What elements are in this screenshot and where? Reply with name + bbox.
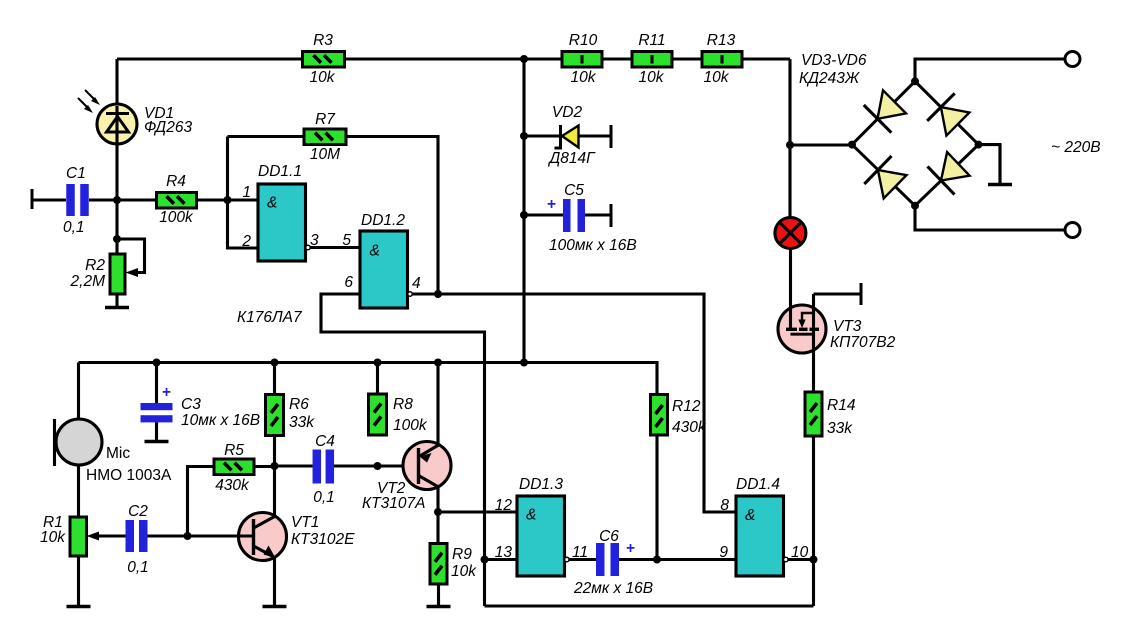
wire: VT2 emitter up to rail bbox=[436, 363, 439, 446]
wire: R12 down to C6/pin9 net bbox=[655, 435, 658, 560]
pin 10 output bubble bbox=[784, 557, 789, 562]
transistor VT2 (PNP) bbox=[403, 442, 451, 490]
svg-text:R14: R14 bbox=[827, 397, 856, 414]
svg-text:DD1.1: DD1.1 bbox=[258, 163, 302, 180]
svg-text:+: + bbox=[547, 196, 556, 213]
svg-text:22мк x 16В: 22мк x 16В bbox=[573, 580, 653, 597]
zener diode VD2 bbox=[524, 134, 560, 137]
svg-text:10k: 10k bbox=[704, 69, 730, 86]
svg-text:0,1: 0,1 bbox=[127, 559, 149, 576]
svg-text:C5: C5 bbox=[564, 182, 584, 199]
resistor R14 bbox=[805, 392, 822, 436]
svg-text:Mic: Mic bbox=[106, 445, 130, 462]
node: middle bus tap bbox=[520, 359, 528, 367]
wire: VT1 collector up bbox=[273, 466, 276, 517]
lamp HL (red) bbox=[775, 218, 806, 249]
node: R8 tap bbox=[374, 359, 382, 367]
wire: bridge right to ground bbox=[979, 145, 1001, 183]
svg-text:430k: 430k bbox=[215, 477, 250, 494]
wire: R14 down to pin10 node bbox=[812, 436, 815, 606]
svg-text:0,1: 0,1 bbox=[313, 489, 335, 506]
op-amp gate DD1.1 bbox=[258, 184, 306, 261]
svg-text:DD1.2: DD1.2 bbox=[361, 212, 405, 229]
svg-text:0,1: 0,1 bbox=[63, 219, 85, 236]
ground under R2 bbox=[115, 294, 118, 308]
resistor R6 bbox=[273, 363, 276, 395]
diode VD6 (bottom-right arm) bbox=[928, 152, 970, 195]
node: bridge-left/lamp junction bbox=[786, 141, 794, 149]
svg-text:10k: 10k bbox=[571, 69, 597, 86]
node: C1/R4/VD1/R2 junction bbox=[113, 196, 121, 204]
node: R6/R5/C4/VT1 bbox=[271, 462, 279, 470]
node: VT2 emitter tap bbox=[434, 359, 442, 367]
wire: mic-amp supply rail bbox=[79, 363, 658, 395]
svg-text:430k: 430k bbox=[672, 419, 707, 436]
diode bridge arms bbox=[852, 81, 979, 205]
wire: VT1 base bbox=[188, 534, 254, 537]
transistor VT1 (NPN) bbox=[239, 513, 287, 561]
svg-text:КД243Ж: КД243Ж bbox=[799, 70, 860, 87]
resistor R7 bbox=[304, 129, 346, 145]
wire: R7 right to output-4 node bbox=[346, 137, 438, 295]
svg-text:10k: 10k bbox=[451, 563, 477, 580]
potentiometer R2 with wiper loop bbox=[110, 254, 125, 294]
svg-text:R8: R8 bbox=[393, 396, 413, 413]
svg-text:КП707В2: КП707В2 bbox=[830, 334, 896, 351]
wire: bridge top to AC terminal bbox=[915, 59, 1065, 81]
wire: top supply rail bbox=[117, 57, 790, 60]
svg-text:VT1: VT1 bbox=[291, 514, 319, 531]
svg-text:R6: R6 bbox=[289, 396, 309, 413]
node: C2/R5/base bbox=[184, 532, 192, 540]
capacitor C6 bbox=[569, 558, 596, 561]
wire: VT3 source to R14 bbox=[812, 353, 815, 392]
capacitor C4 bbox=[275, 464, 313, 467]
svg-text:C1: C1 bbox=[66, 165, 86, 182]
svg-text:10k: 10k bbox=[310, 69, 336, 86]
svg-text:C3: C3 bbox=[181, 396, 201, 413]
gate DD1.2 bbox=[360, 231, 408, 308]
node: pin12 tap bbox=[434, 508, 442, 516]
resistor R4 bbox=[117, 198, 157, 201]
svg-text:R4: R4 bbox=[166, 173, 186, 190]
microphone Mic bbox=[77, 363, 80, 420]
resistor R3 bbox=[303, 52, 345, 68]
wire: VD1 anode lead up bbox=[115, 59, 118, 106]
wire: rail down to bridge level bbox=[788, 59, 791, 218]
node: C5 junction bbox=[520, 211, 528, 219]
svg-text:1: 1 bbox=[242, 184, 251, 201]
svg-text:2: 2 bbox=[241, 233, 251, 250]
resistor R10 bbox=[562, 52, 602, 68]
svg-text:4: 4 bbox=[412, 275, 421, 292]
svg-text:10мк x 16В: 10мк x 16В bbox=[181, 412, 260, 429]
wire: bottom feedback rail bbox=[485, 604, 814, 607]
wire: pin 13 bbox=[485, 558, 518, 561]
svg-text:10M: 10M bbox=[310, 146, 340, 163]
light arrows into VD1 bbox=[78, 90, 100, 113]
capacitor C1 bbox=[31, 189, 34, 209]
resistor R13 bbox=[702, 52, 742, 68]
svg-text:12: 12 bbox=[495, 497, 513, 514]
svg-text:R10: R10 bbox=[569, 32, 598, 49]
svg-text:DD1.4: DD1.4 bbox=[736, 476, 780, 493]
wire: junction down to pin 2 bbox=[228, 200, 259, 248]
resistor R9 bbox=[430, 544, 447, 585]
svg-text:R5: R5 bbox=[224, 442, 244, 459]
diode VD4 (top-right arm) bbox=[927, 93, 969, 135]
svg-text:R13: R13 bbox=[707, 32, 736, 49]
svg-text:HMO 1003A: HMO 1003A bbox=[86, 467, 172, 484]
svg-text:C2: C2 bbox=[128, 503, 148, 520]
svg-text:5: 5 bbox=[342, 232, 351, 249]
wire: pin4 to DD1.4 pin8 bbox=[412, 294, 736, 512]
capacitor C2 bbox=[148, 534, 188, 537]
svg-text:DD1.3: DD1.3 bbox=[519, 476, 563, 493]
wire: middle vertical bus bbox=[522, 59, 525, 363]
wire: node to R2 tap node bbox=[115, 200, 118, 254]
node: R4/R7/pin1/pin2 junction bbox=[224, 196, 232, 204]
ground (R1) bbox=[77, 600, 80, 607]
svg-text:ФД263: ФД263 bbox=[144, 119, 192, 136]
svg-text:VD3-VD6: VD3-VD6 bbox=[801, 52, 867, 69]
svg-text:R9: R9 bbox=[452, 546, 472, 563]
svg-text:33k: 33k bbox=[827, 420, 853, 437]
svg-text:8: 8 bbox=[720, 497, 729, 514]
svg-text:C6: C6 bbox=[599, 528, 619, 545]
svg-text:VT3: VT3 bbox=[833, 318, 862, 335]
wire: VT1 emitter to ground bbox=[273, 557, 276, 605]
ground (R9) bbox=[437, 600, 440, 607]
svg-text:&: & bbox=[267, 195, 277, 212]
node: rail/R10 junction bbox=[520, 55, 528, 63]
wire: VT2 collector down bbox=[436, 487, 439, 544]
svg-text:10k: 10k bbox=[40, 529, 66, 546]
wire: junction up to R7 left bbox=[226, 137, 229, 201]
svg-text:9: 9 bbox=[719, 544, 728, 561]
resistor R12 bbox=[651, 395, 668, 436]
svg-text:VD2: VD2 bbox=[552, 104, 583, 121]
svg-text:Д814Г: Д814Г bbox=[547, 150, 596, 167]
svg-text:C4: C4 bbox=[315, 433, 335, 450]
wire: R6 to VT1 collector node bbox=[273, 436, 276, 467]
node: pin13/feedback bbox=[481, 556, 489, 564]
ground (VT1) bbox=[273, 600, 276, 607]
resistor R11 bbox=[632, 52, 672, 68]
wire: to VT2 base bbox=[378, 464, 419, 467]
wire: pin3 to pin5 bbox=[310, 246, 360, 249]
svg-text:&: & bbox=[370, 243, 380, 260]
svg-text:R11: R11 bbox=[638, 32, 665, 49]
pin 11 output bubble bbox=[565, 557, 570, 562]
svg-text:10k: 10k bbox=[639, 69, 665, 86]
node: pin10/R14/feedback bbox=[810, 556, 818, 564]
resistor R8 bbox=[376, 363, 379, 395]
svg-text:+: + bbox=[626, 540, 635, 557]
svg-text:R7: R7 bbox=[315, 111, 336, 128]
svg-text:100k: 100k bbox=[159, 209, 194, 226]
AC terminal (top) bbox=[1065, 52, 1080, 67]
svg-text:R2: R2 bbox=[85, 257, 105, 274]
svg-text:К176ЛА7: К176ЛА7 bbox=[237, 309, 303, 326]
node: VD2 junction bbox=[520, 132, 528, 140]
capacitor C5 bbox=[524, 213, 563, 216]
svg-text:100k: 100k bbox=[393, 417, 428, 434]
AC terminal (bottom) bbox=[1065, 223, 1080, 238]
svg-text:+: + bbox=[162, 384, 171, 401]
pin 4 output bubble bbox=[408, 292, 413, 297]
node: pin4/R7 junction bbox=[434, 290, 442, 298]
wire: R9 to ground bbox=[437, 584, 440, 605]
svg-text:2,2M: 2,2M bbox=[70, 273, 106, 290]
svg-text:&: & bbox=[526, 507, 536, 524]
svg-text:33k: 33k bbox=[289, 414, 315, 431]
potentiometer R1 bbox=[70, 517, 87, 556]
node: R8/C4/VT2-base bbox=[374, 462, 382, 470]
svg-text:&: & bbox=[745, 507, 755, 524]
diode VD5 (bottom-left arm) bbox=[864, 156, 906, 198]
pin 3 output bubble bbox=[306, 245, 311, 250]
node: C3 tap bbox=[153, 359, 161, 367]
svg-text:R12: R12 bbox=[672, 398, 701, 415]
svg-text:~ 220В: ~ 220В bbox=[1051, 139, 1101, 156]
wire: bridge bottom to AC terminal bbox=[915, 206, 1065, 230]
MOSFET VT3 bbox=[778, 294, 826, 353]
node: R12/C6/pin9 bbox=[653, 556, 661, 564]
wire: VD1 cathode down to node bbox=[115, 144, 118, 200]
wire: mic to R1 bbox=[77, 465, 80, 517]
wire: pin 6 feedback down bbox=[321, 294, 485, 606]
wire: lamp to VT3 drain bbox=[789, 249, 792, 311]
svg-text:6: 6 bbox=[344, 274, 353, 291]
svg-text:100мк x 16В: 100мк x 16В bbox=[549, 237, 637, 254]
wire: pin 12 bbox=[438, 510, 517, 513]
svg-text:КТ3102Е: КТ3102Е bbox=[291, 531, 355, 548]
bridge nodes bbox=[848, 141, 856, 149]
wire: R1 to ground bbox=[77, 556, 80, 605]
diode VD3 (top-left arm) bbox=[864, 90, 906, 132]
photodiode VD1 bbox=[97, 104, 137, 144]
gate DD1.3 bbox=[517, 496, 565, 576]
ground (bridge) bbox=[998, 145, 1001, 185]
node: R6 tap bbox=[271, 359, 279, 367]
wire: pin10 to R14 line bbox=[788, 558, 813, 561]
capacitor C3 (polar, horizontal plates) bbox=[155, 363, 158, 404]
svg-text:КТ3107А: КТ3107А bbox=[362, 495, 425, 512]
resistor R5 bbox=[188, 467, 215, 537]
wire: VT3 gate bbox=[814, 292, 862, 295]
svg-text:R3: R3 bbox=[313, 32, 333, 49]
gate DD1.4 bbox=[736, 496, 784, 576]
wire: to bridge left node bbox=[790, 143, 852, 146]
